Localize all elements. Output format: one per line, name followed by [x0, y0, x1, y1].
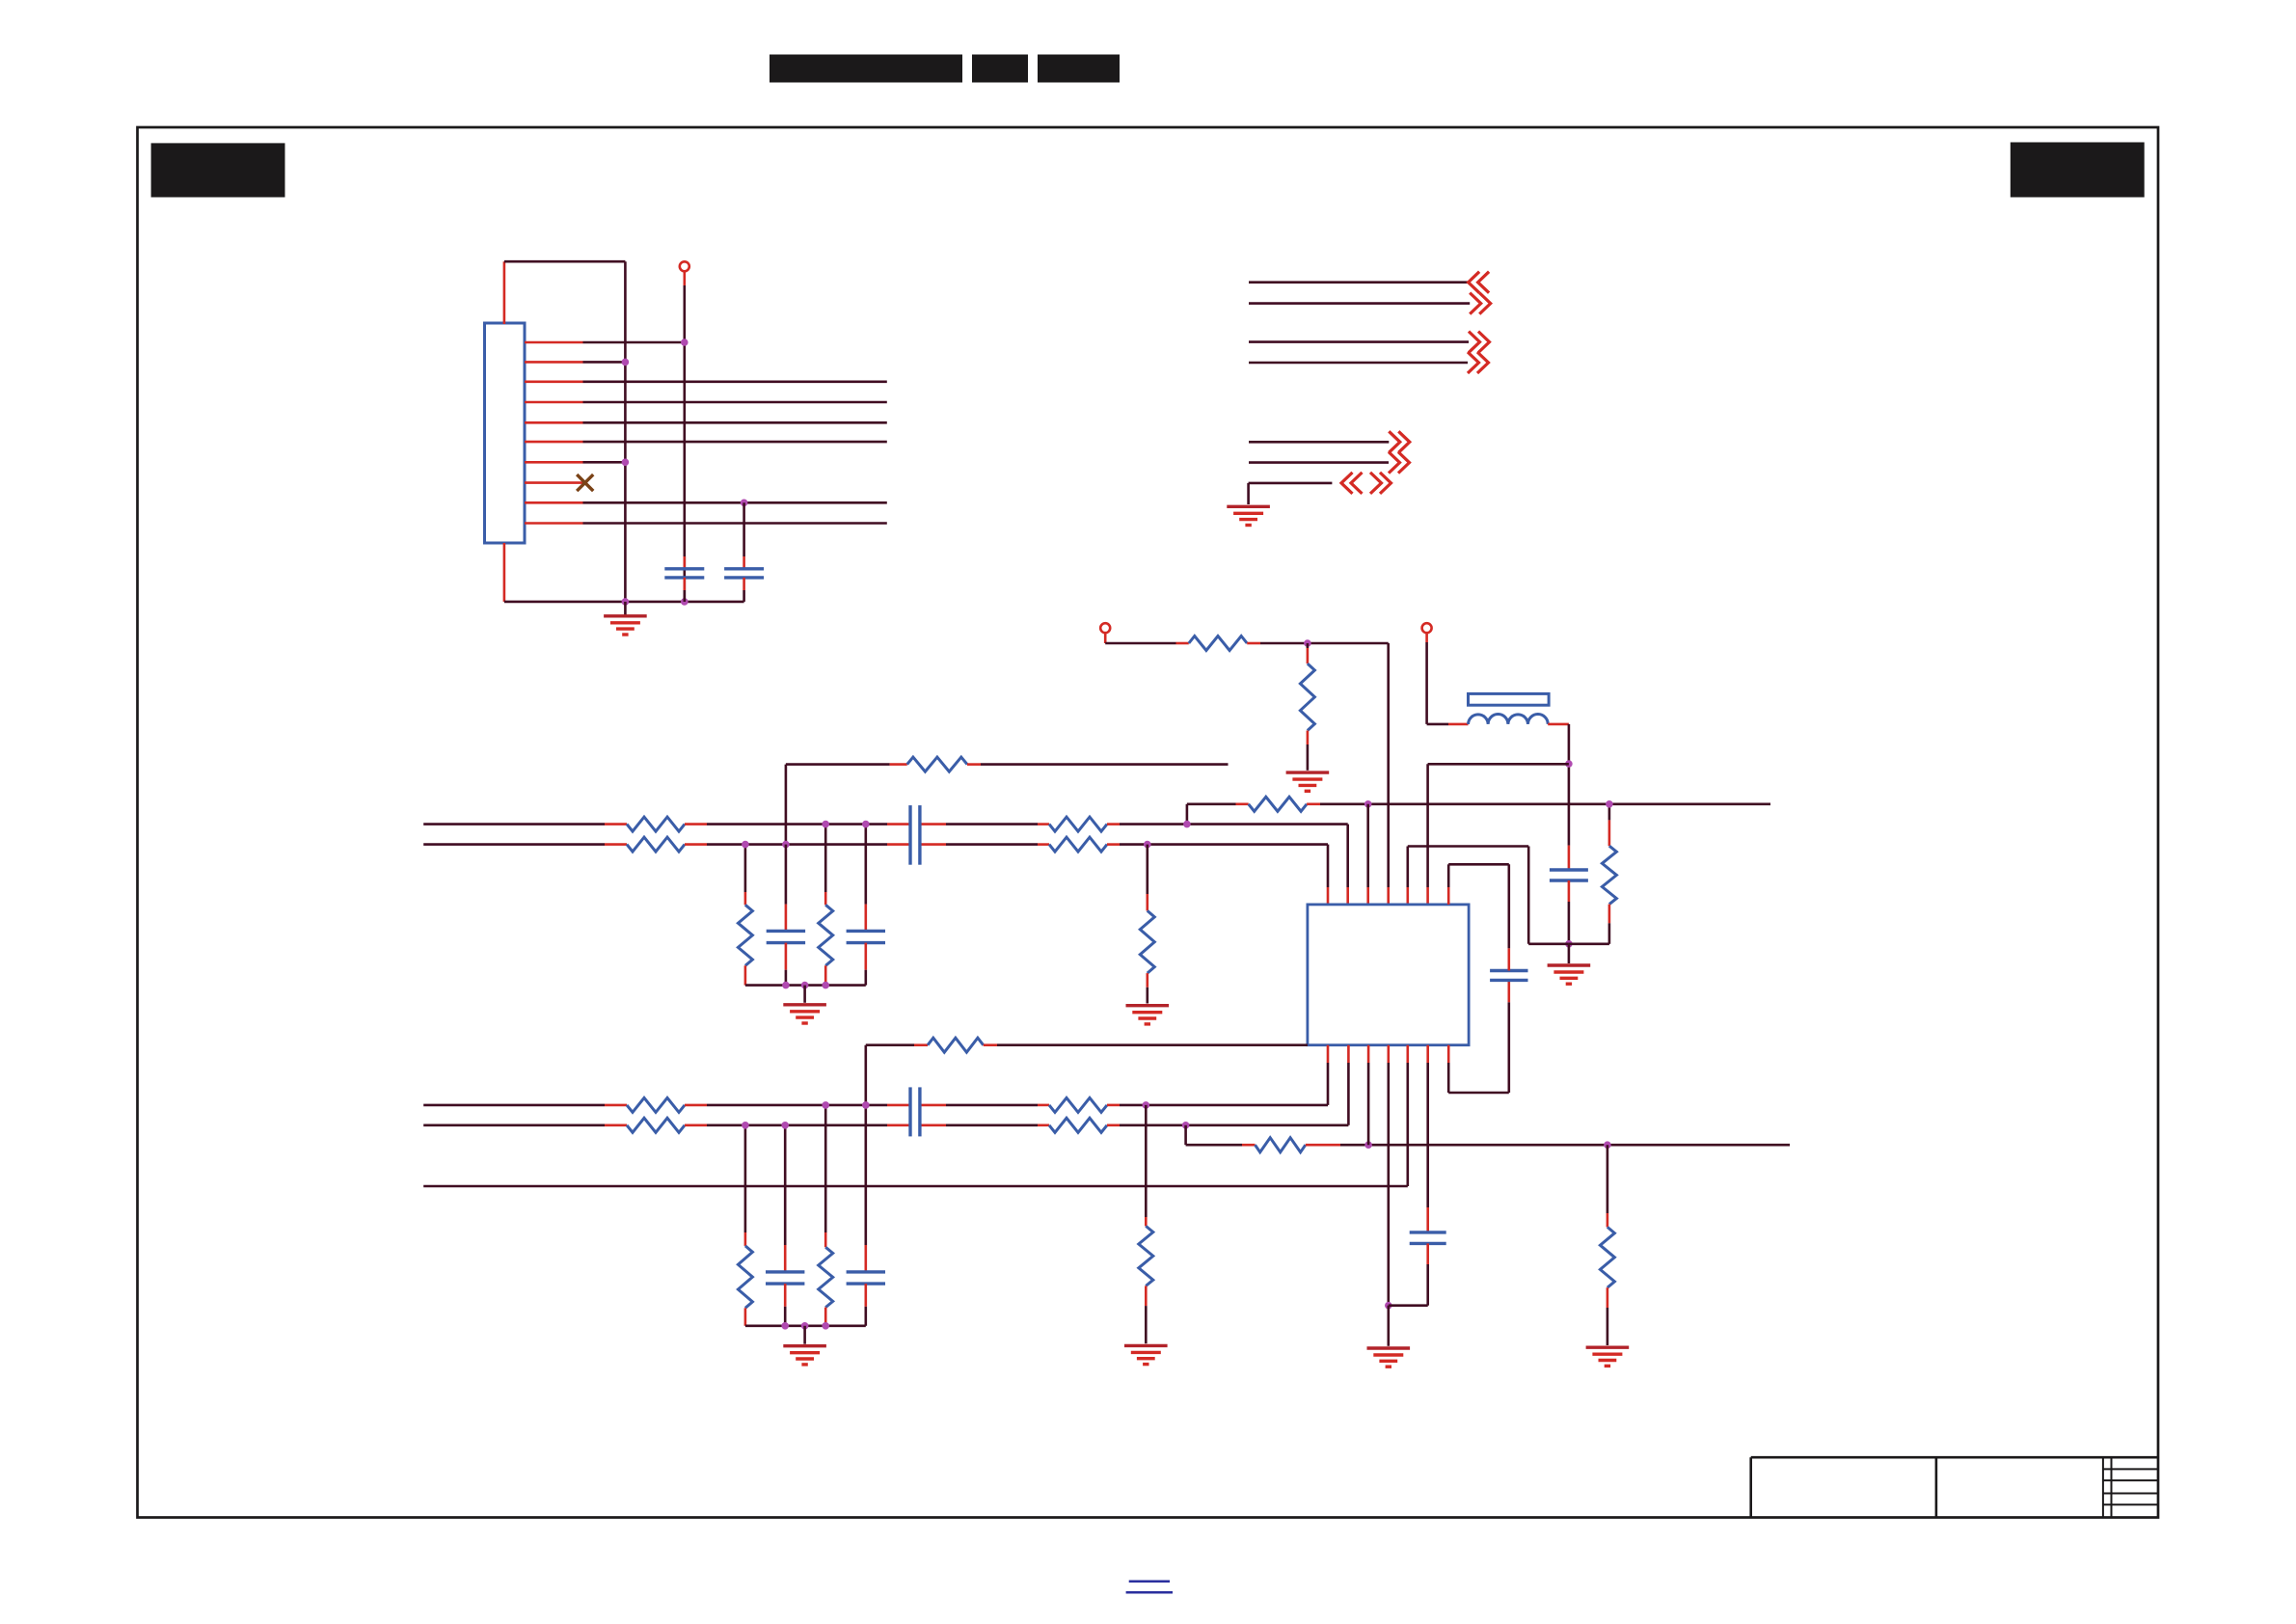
wire R-load down: [1608, 923, 1611, 944]
IC pin B5 stub: [1407, 1045, 1410, 1063]
wire bypass loop top right: [1508, 864, 1511, 948]
wire B tap from line4: [1184, 1125, 1187, 1145]
wire line1 after cap: [946, 823, 1038, 826]
wire comp2 tap vertical / branch C4 down: [864, 1045, 867, 1245]
wire comp upper: [786, 763, 890, 766]
junction bus2-Rb4: [822, 1322, 829, 1330]
connector J1: [485, 323, 526, 543]
capacitor Cb4 top lead: [864, 1245, 867, 1272]
pin 2 lead: [525, 361, 583, 364]
junction line3-Rgnd: [1143, 1101, 1150, 1109]
arrow chevrons: [1389, 452, 1410, 474]
ground ch2 node: [1367, 1348, 1411, 1367]
resistor Rb1 top lead: [744, 892, 747, 905]
capacitor series line4 right lead: [920, 1124, 946, 1127]
junction A-T3: [1364, 800, 1372, 808]
redacted title text block 2: [972, 55, 1028, 83]
junction bus1-Rb2: [822, 982, 829, 989]
resistor stage2 line2 left lead: [1038, 843, 1049, 846]
wire data line: [583, 421, 887, 424]
junction pin1: [681, 338, 689, 346]
capacitor series ch1: [910, 805, 920, 865]
wire T5 vertical right: [1527, 847, 1530, 944]
wire B4 vertical to gnd node: [1388, 1063, 1391, 1306]
resistor stage2 line2 right lead: [1107, 843, 1120, 846]
wire B6 vertical: [1426, 1063, 1429, 1207]
junction bus2-Cb3: [781, 1322, 789, 1330]
resistor Rb2 bottom lead: [824, 965, 827, 985]
wire R-load2 to ground: [1607, 1308, 1609, 1345]
wire R-fb2 top stub: [1608, 804, 1611, 821]
wire pin1 to +5V net: [583, 341, 685, 344]
wire branch R3 down: [744, 1125, 747, 1232]
resistor Rgnd1 top lead: [1147, 894, 1149, 910]
resistor R-vin left lead: [1176, 642, 1189, 645]
bus line out 3: [1249, 441, 1389, 444]
wire C1 to bus: [683, 590, 686, 602]
resistor stage2 line1: [1049, 817, 1107, 831]
capacitor Cb4 bottom lead: [864, 1284, 867, 1307]
wire line2 after cap: [946, 843, 1038, 846]
resistor series line1 left lead: [605, 823, 627, 826]
capacitor C-byp top lead: [1508, 948, 1511, 970]
wire line4 mid: [707, 1124, 887, 1127]
arrow chevrons: [1470, 293, 1491, 314]
junction bus-gnd: [622, 598, 630, 606]
wire line3 input: [423, 1104, 605, 1107]
wire vertical from terminal: [683, 285, 686, 602]
wire feedback B to right: [1340, 1144, 1790, 1147]
pin 3 lead: [525, 380, 583, 383]
junction line2-R1: [742, 841, 749, 849]
ground Rgnd1: [1126, 1006, 1170, 1024]
wire data line: [583, 380, 887, 383]
resistor R-vin right lead: [1247, 642, 1260, 645]
wire Cb2 to bus: [864, 970, 867, 986]
capacitor C-byp bottom lead: [1508, 980, 1511, 1002]
junction line1-A: [1183, 821, 1191, 828]
wire Rgnd1 to ground: [1147, 988, 1149, 1004]
wire line3 up to B1: [1327, 1063, 1330, 1105]
wire line4 input: [423, 1124, 605, 1127]
inductor L1 shield bar: [1469, 693, 1550, 705]
resistor series line4 right lead: [685, 1124, 707, 1127]
capacitor Cb3 top lead: [784, 1245, 787, 1272]
capacitor C-byp: [1490, 971, 1527, 981]
junction line3-Cb4: [862, 1101, 870, 1109]
ground stem connector: [624, 602, 627, 616]
wire branch R4 down: [824, 1105, 827, 1232]
wire line1 down to T2: [1346, 825, 1349, 887]
resistor Rb1: [738, 905, 752, 965]
resistor series line4: [627, 1118, 685, 1132]
junction VIN / R-divider: [1304, 639, 1311, 647]
wire line1 mid: [707, 823, 887, 826]
wire line5: [423, 1185, 1408, 1188]
IC pin T3 stub: [1366, 887, 1369, 905]
wire bypass loop top: [1448, 863, 1509, 866]
resistor R-load bottom lead: [1608, 905, 1611, 924]
wire data line: [583, 441, 887, 444]
inductor L1: [1469, 715, 1549, 724]
wire line2 Rgnd down: [1147, 845, 1149, 894]
resistor series line3: [627, 1097, 685, 1112]
wire Cb4 to bus: [864, 1307, 867, 1326]
junction bus1-gnd: [801, 982, 809, 989]
ground R-div: [1286, 772, 1330, 791]
ground bus ch1: [783, 1005, 826, 1023]
wire pin9 line: [583, 501, 887, 504]
resistor series line3 left lead: [605, 1104, 627, 1107]
pin 1 lead: [525, 341, 583, 344]
capacitor C-out bottom lead: [1568, 880, 1571, 902]
junction pin7: [622, 459, 630, 467]
wire Rgnd2 to ground: [1145, 1306, 1148, 1343]
resistor Rb3 bottom lead: [744, 1308, 747, 1326]
pin 8 lead: [525, 481, 583, 484]
resistor series line3 right lead: [685, 1104, 707, 1107]
wire ground bus: [504, 601, 744, 604]
wire line2 mid: [707, 843, 887, 846]
wire branch R1 down: [744, 845, 747, 892]
wire feedback B: [1186, 1144, 1242, 1147]
resistor R-comp1: [907, 757, 967, 771]
arrow chevrons: [1469, 272, 1490, 293]
resistor R-load top lead: [1608, 820, 1611, 846]
IC pin T2 stub: [1346, 887, 1349, 905]
wire VIN to R: [1105, 642, 1175, 645]
capacitor Cb1 top lead: [785, 905, 788, 932]
capacitor series ch2: [910, 1087, 920, 1136]
wire branch bus ch2: [745, 1325, 866, 1328]
wire C-out2 to gnd node: [1389, 1304, 1428, 1307]
resistor Rb3: [738, 1246, 752, 1308]
resistor R-fbB left lead: [1242, 1144, 1256, 1147]
wire line3 to IC: [1120, 1104, 1328, 1107]
wire pin9 tap down: [743, 502, 745, 556]
wire C2 to bus: [743, 590, 745, 602]
resistor R-comp1 right lead: [967, 763, 981, 766]
capacitor C2: [724, 569, 764, 578]
terminal VIN circle: [1100, 623, 1110, 633]
IC pin T7 stub: [1447, 887, 1450, 905]
arrow chevrons: [1469, 332, 1490, 353]
wire C-out to gnd node: [1568, 902, 1571, 944]
wire line4 to IC: [1120, 1124, 1348, 1127]
wire comp lower to IC corner: [997, 1043, 1308, 1046]
wire comp tap vertical: [785, 765, 788, 845]
junction line2-Cb1: [782, 841, 790, 849]
junction line1-Cb2: [862, 821, 870, 828]
junction pin9 cap tap: [741, 500, 748, 507]
resistor Rgnd1 bottom lead: [1147, 973, 1149, 988]
junction B-Rload2: [1604, 1141, 1611, 1149]
resistor R-fbB: [1256, 1138, 1306, 1152]
wire line2 input: [423, 843, 605, 846]
IC pin T6 stub: [1426, 887, 1429, 905]
resistor R-comp2 right lead: [984, 1043, 997, 1046]
ground stem bus2: [803, 1326, 806, 1344]
resistor Rb4 bottom lead: [824, 1308, 827, 1326]
wire VCC down: [1425, 642, 1428, 724]
capacitor Cb3 bottom lead: [784, 1284, 787, 1307]
resistor stage2 line4: [1049, 1118, 1107, 1132]
wire R-load to gnd node: [1569, 942, 1609, 945]
capacitor C-out top lead: [1568, 846, 1571, 870]
capacitor series line2 left lead: [887, 843, 910, 846]
resistor Rgnd2 bottom lead: [1145, 1286, 1148, 1306]
wire T3 vertical: [1366, 804, 1369, 887]
wire A tap to line1: [1186, 804, 1189, 825]
IC pin B3 stub: [1367, 1045, 1370, 1063]
resistor R-comp2 left lead: [914, 1043, 928, 1046]
no-connect X on pin 8: [577, 474, 593, 491]
resistor R-load2 top lead: [1607, 1213, 1609, 1227]
wire Cb1 to bus: [785, 970, 788, 986]
capacitor C-out2 top lead: [1426, 1207, 1429, 1232]
capacitor C-out: [1550, 870, 1588, 880]
wire line2 to IC: [1120, 843, 1328, 846]
capacitor C2 bottom lead: [743, 578, 745, 590]
wire feedback A: [1187, 802, 1236, 805]
IC pin T1 stub: [1327, 887, 1330, 905]
resistor Rgnd2: [1139, 1226, 1153, 1286]
capacitor series line2 right lead: [920, 843, 946, 846]
resistor series line2 left lead: [605, 843, 627, 846]
wire feedback A to right: [1320, 802, 1770, 805]
capacitor series line1 left lead: [887, 823, 910, 826]
resistor Rb4: [819, 1247, 833, 1307]
wire pin7 to gnd net: [583, 461, 626, 464]
resistor R-fbA right lead: [1307, 802, 1320, 805]
wire T5 to gnd node: [1528, 942, 1569, 945]
resistor R-comp1 left lead: [890, 763, 907, 766]
junction L1-out / T6: [1565, 760, 1573, 768]
resistor R-div: [1300, 663, 1314, 730]
resistor R-div top lead: [1307, 648, 1310, 663]
wire branch C3 down: [784, 1125, 787, 1245]
junction line4-R3: [742, 1122, 749, 1129]
capacitor C1 bottom lead: [683, 578, 686, 590]
bidirectional arrow chevrons: [1341, 473, 1391, 494]
bus line out 4: [1249, 461, 1389, 464]
bus line SCL with out-arrow: [1249, 302, 1470, 305]
wire L1 output down: [1568, 724, 1571, 846]
ground stem ch2 node: [1388, 1306, 1391, 1346]
wire C-out2 down: [1426, 1264, 1429, 1306]
resistor R-fbA: [1249, 797, 1307, 811]
resistor R-vin: [1189, 636, 1247, 651]
resistor R-comp2: [928, 1038, 984, 1052]
ground right node: [1548, 965, 1591, 984]
capacitor C-out2: [1410, 1232, 1446, 1244]
wire VCC stub: [1425, 633, 1428, 642]
wire line4 up to B2: [1347, 1063, 1350, 1125]
junction gnd node ch2: [1385, 1302, 1392, 1310]
wire Cb3 to bus: [784, 1307, 787, 1326]
junction line4-Cb3: [781, 1122, 789, 1129]
resistor stage2 line3 left lead: [1038, 1104, 1049, 1107]
junction bus-C1: [681, 598, 689, 606]
wire T5 to IC: [1407, 847, 1410, 888]
wire T7 down: [1447, 864, 1450, 887]
wire divider stub: [1307, 643, 1310, 648]
inductor L1 left lead: [1448, 723, 1469, 726]
junction gnd node right: [1565, 940, 1573, 948]
bus line out 1: [1249, 340, 1469, 343]
wire line1 to IC: [1120, 823, 1348, 826]
wire bidir to ground: [1247, 483, 1250, 504]
IC pin B1 stub: [1327, 1045, 1330, 1063]
wire B5 vertical to line5: [1407, 1063, 1410, 1186]
junction A-Rload: [1606, 800, 1613, 808]
wire B7 down: [1447, 1063, 1450, 1093]
resistor Rb2: [819, 905, 833, 965]
resistor Rb1 bottom lead: [744, 965, 747, 985]
terminal VCC circle: [1422, 623, 1432, 633]
IC pin B7 stub: [1447, 1045, 1450, 1063]
wire branch C2 down: [864, 825, 867, 905]
resistor stage2 line4 right lead: [1107, 1124, 1120, 1127]
capacitor series line3 right lead: [920, 1104, 946, 1107]
wire T5 horizontal: [1408, 845, 1528, 848]
IC pin B6 stub: [1426, 1045, 1429, 1063]
wire line3 after cap: [946, 1104, 1038, 1107]
resistor series line1: [627, 817, 685, 831]
wire data line: [583, 401, 887, 404]
wire line3 Rgnd down: [1145, 1105, 1148, 1217]
wire branch bus ch1: [745, 984, 866, 987]
capacitor Cb3: [766, 1272, 804, 1284]
resistor stage2 line1 left lead: [1038, 823, 1049, 826]
junction line4-B: [1182, 1122, 1190, 1129]
ground R-load2: [1586, 1347, 1630, 1366]
resistor R-load2 bottom lead: [1607, 1287, 1609, 1308]
resistor R-fbA left lead: [1236, 802, 1249, 805]
pin 7 lead: [525, 461, 583, 464]
wire terminal stub: [683, 271, 686, 285]
IC U1: [1308, 905, 1469, 1045]
ground stem right node: [1568, 944, 1571, 963]
IC pin B2 stub: [1347, 1045, 1350, 1063]
IC pin T5 stub: [1407, 887, 1410, 905]
pin 10 lead: [525, 522, 583, 525]
wire branch C1 down: [785, 845, 788, 905]
wire VIN net: [1260, 642, 1389, 645]
capacitor C1: [664, 569, 704, 578]
wire line3 mid: [707, 1104, 887, 1107]
capacitor Cb2 bottom lead: [864, 943, 867, 970]
ground stem bus1: [803, 986, 806, 1003]
capacitor Cb1 bottom lead: [785, 943, 788, 970]
wire connector top lead: [503, 261, 506, 324]
bus line bidir: [1249, 482, 1333, 485]
resistor series line2: [627, 837, 685, 852]
IC pin B4 stub: [1388, 1045, 1391, 1063]
resistor Rb3 top lead: [744, 1232, 747, 1246]
wire T6 vertical: [1426, 764, 1429, 887]
arrow chevrons: [1468, 352, 1489, 373]
wire bypass loop right: [1508, 1002, 1511, 1093]
ground Rgnd2: [1124, 1345, 1168, 1364]
resistor Rb4 top lead: [824, 1232, 827, 1247]
wire pin2 to gnd net: [583, 361, 626, 364]
resistor stage2 line2: [1049, 837, 1107, 852]
pin 6 lead: [525, 441, 583, 444]
redacted title text block 1: [770, 55, 962, 83]
arrow chevrons: [1389, 431, 1410, 452]
resistor series line4 left lead: [605, 1124, 627, 1127]
pin 5 lead: [525, 421, 583, 424]
resistor stage2 line4 left lead: [1038, 1124, 1049, 1127]
capacitor series line1 right lead: [920, 823, 946, 826]
bus line out 2: [1249, 362, 1468, 365]
wire branch R2 down: [824, 825, 827, 892]
capacitor Cb2 top lead: [864, 905, 867, 932]
ground arrow-area: [1227, 506, 1270, 525]
redacted top-left label: [151, 143, 285, 197]
resistor R-load2: [1600, 1227, 1614, 1287]
capacitor series line4 left lead: [887, 1124, 910, 1127]
resistor stage2 line3 right lead: [1107, 1104, 1120, 1107]
resistor stage2 line1 right lead: [1107, 823, 1120, 826]
wire R-div to ground: [1307, 744, 1310, 771]
junction B-B3: [1364, 1141, 1372, 1149]
redacted title text block 3: [1038, 55, 1120, 83]
footer page-number underlines: [1126, 1582, 1173, 1593]
IC pin T4 stub: [1387, 887, 1390, 905]
wire connector bottom lead: [503, 543, 506, 602]
junction line1-R2: [822, 821, 829, 828]
wire B3 vertical: [1367, 1063, 1370, 1145]
capacitor C-out2 bottom lead: [1426, 1243, 1429, 1264]
wire line1 input: [423, 823, 605, 826]
wire line2 down to T1: [1327, 845, 1330, 887]
wire VCC to L: [1427, 723, 1448, 726]
terminal +5V circle: [680, 261, 689, 271]
wire line4 after cap: [946, 1124, 1038, 1127]
resistor Rb2 top lead: [824, 892, 827, 905]
resistor Rgnd2 top lead: [1145, 1217, 1148, 1226]
wire vertical net GND-left: [624, 261, 627, 602]
redacted top-right label: [2011, 143, 2145, 198]
wire pin10 line: [583, 522, 887, 525]
ground connector: [604, 616, 647, 635]
capacitor series line3 left lead: [887, 1104, 910, 1107]
junction bus1-Cb1: [782, 982, 790, 989]
capacitor C1 top lead: [683, 556, 686, 569]
resistor series line1 right lead: [685, 823, 707, 826]
border frame: [138, 127, 2159, 1518]
wire VIN stub: [1104, 633, 1107, 643]
capacitor Cb4: [847, 1272, 885, 1284]
junction line2-Rgnd: [1144, 841, 1151, 849]
resistor R-div bottom lead: [1307, 731, 1310, 745]
capacitor Cb2: [847, 931, 885, 942]
wire bypass loop bottom: [1448, 1092, 1509, 1095]
resistor Rgnd1: [1140, 910, 1154, 973]
capacitor Cb1: [767, 931, 805, 942]
junction pin2: [622, 359, 630, 366]
junction line3-R4: [822, 1101, 829, 1109]
resistor R-load: [1602, 846, 1616, 904]
wire T6 to L1-out: [1428, 763, 1569, 766]
inductor L1 right lead: [1548, 723, 1569, 726]
title block: [1751, 1457, 2158, 1517]
resistor series line2 right lead: [685, 843, 707, 846]
resistor R-fbB right lead: [1306, 1144, 1340, 1147]
capacitor C2 top lead: [743, 556, 745, 569]
